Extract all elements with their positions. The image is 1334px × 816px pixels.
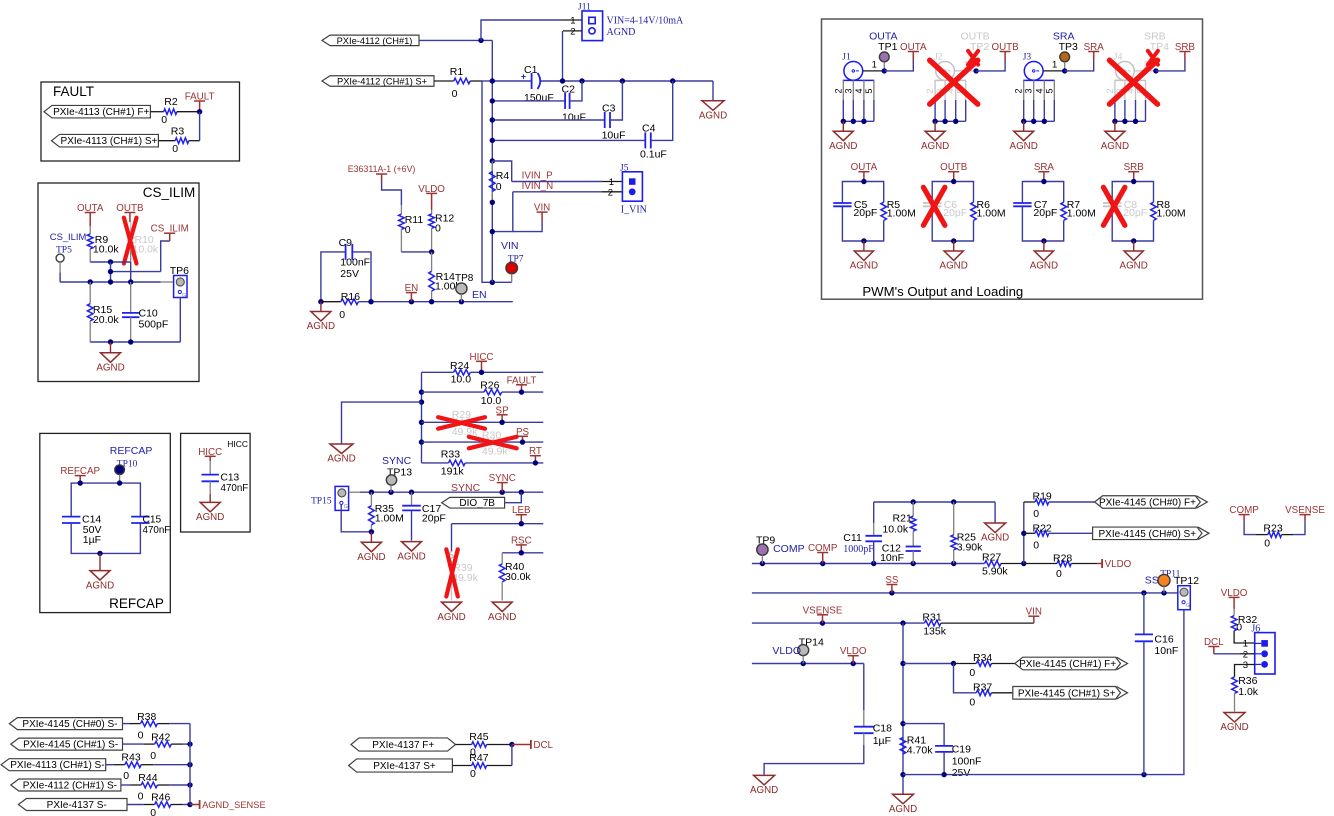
svg-text:3: 3 bbox=[1024, 88, 1034, 93]
svg-text:0: 0 bbox=[1033, 539, 1039, 551]
svg-text:0.1uF: 0.1uF bbox=[640, 149, 667, 161]
svg-text:1: 1 bbox=[609, 177, 614, 188]
power flag DCL bbox=[1213, 647, 1215, 654]
resistor R11 bbox=[400, 205, 402, 214]
ground AGND bbox=[402, 542, 422, 552]
svg-text:AGND_SENSE: AGND_SENSE bbox=[202, 800, 266, 810]
resistor R37 bbox=[976, 690, 991, 696]
svg-text:2: 2 bbox=[608, 188, 613, 199]
capacitor C12 bbox=[912, 531, 914, 546]
svg-text:J4: J4 bbox=[1114, 53, 1123, 63]
svg-text:0: 0 bbox=[435, 223, 441, 235]
svg-text:C1: C1 bbox=[524, 64, 538, 76]
wire COMP row bbox=[752, 563, 985, 565]
capacitor C5 bbox=[833, 202, 851, 204]
wire bbox=[1071, 563, 1097, 565]
PWM block outline bbox=[822, 19, 1203, 299]
svg-text:VSENSE: VSENSE bbox=[1285, 505, 1325, 516]
power flag OUTA bbox=[912, 52, 914, 62]
resistor R46 bbox=[155, 802, 171, 808]
wire TP15 bottom bbox=[341, 505, 371, 532]
svg-text:LEB: LEB bbox=[512, 505, 531, 516]
svg-text:0: 0 bbox=[123, 770, 129, 782]
capacitor C14 bbox=[62, 516, 80, 518]
wire bbox=[941, 622, 1034, 624]
wire bbox=[1001, 563, 1024, 565]
svg-text:REFCAP: REFCAP bbox=[60, 466, 100, 477]
svg-text:1.0k: 1.0k bbox=[1238, 686, 1259, 698]
svg-text:AGND: AGND bbox=[981, 533, 1009, 544]
svg-text:1: 1 bbox=[570, 16, 575, 27]
svg-text:0: 0 bbox=[1264, 537, 1270, 549]
svg-text:470nF: 470nF bbox=[221, 483, 249, 494]
svg-text:R2: R2 bbox=[164, 96, 178, 108]
svg-text:0: 0 bbox=[452, 88, 458, 100]
svg-text:1.00M: 1.00M bbox=[977, 208, 1006, 220]
svg-text:135k: 135k bbox=[923, 626, 947, 638]
wire bbox=[382, 182, 402, 205]
connector PXIe-4137 S+ bbox=[349, 759, 453, 772]
wire bbox=[171, 743, 183, 745]
wire loop bbox=[71, 483, 140, 516]
svg-text:SYNC: SYNC bbox=[382, 455, 412, 467]
wire bottom row bbox=[903, 774, 1144, 776]
svg-text:10.0k: 10.0k bbox=[133, 244, 159, 256]
wire bbox=[512, 744, 531, 746]
svg-text:PXIe-4112 (CH#1): PXIe-4112 (CH#1) bbox=[337, 36, 413, 46]
svg-text:EN: EN bbox=[472, 289, 487, 301]
resistor R42 bbox=[155, 741, 172, 747]
wire S- bus bbox=[189, 724, 191, 805]
wire row PS bbox=[422, 441, 544, 443]
wire bbox=[1024, 532, 1035, 534]
ground AGND bbox=[1224, 713, 1245, 723]
resistor R28 bbox=[1024, 563, 1057, 565]
svg-text:DCL: DCL bbox=[533, 740, 553, 751]
resistor R5 bbox=[881, 202, 887, 220]
no-fit cross J2 bbox=[930, 60, 978, 104]
wire EN row bbox=[321, 301, 341, 303]
power flag SRB bbox=[1184, 52, 1186, 62]
wire bbox=[487, 765, 512, 767]
junction bbox=[973, 68, 978, 73]
wire bbox=[470, 80, 482, 82]
svg-text:R43: R43 bbox=[121, 752, 140, 764]
wire TP12 stem bbox=[1144, 610, 1184, 775]
wire VSENSE row bbox=[752, 622, 925, 624]
wire bbox=[157, 784, 169, 786]
junction bbox=[1153, 68, 1158, 73]
ground AGND bbox=[754, 775, 775, 785]
svg-text:C18: C18 bbox=[873, 723, 892, 735]
power flag COMP (R23) bbox=[1243, 515, 1245, 522]
wire bbox=[199, 112, 201, 141]
power flag OUTB bbox=[129, 213, 131, 223]
svg-text:TP15: TP15 bbox=[311, 497, 332, 507]
wire IVIN_P bbox=[512, 181, 602, 183]
svg-text:R47: R47 bbox=[469, 752, 488, 764]
wire left bus bbox=[421, 372, 423, 463]
resistor R8 bbox=[1151, 202, 1157, 220]
svg-text:AGND: AGND bbox=[750, 785, 778, 796]
wire bbox=[431, 252, 433, 271]
svg-text:PXIe-4145 (CH#1) F+: PXIe-4145 (CH#1) F+ bbox=[1019, 659, 1116, 670]
connector PXIe-4145 (CH#1) S+ bbox=[1013, 687, 1121, 700]
svg-text:FAULT: FAULT bbox=[507, 375, 537, 386]
wire loop bbox=[932, 182, 973, 204]
connector PXIe-4113 (CH#1) S+ bbox=[52, 134, 159, 147]
svg-text:R44: R44 bbox=[138, 772, 157, 784]
resistor R7 bbox=[1061, 202, 1067, 220]
capacitor C16 bbox=[1143, 593, 1145, 635]
resistor R38 bbox=[141, 721, 158, 727]
wire LEB row bbox=[452, 523, 544, 525]
capacitor C1 (polarized) bbox=[531, 73, 533, 89]
svg-text:R31: R31 bbox=[922, 612, 941, 624]
REFCAP block outline bbox=[40, 433, 171, 612]
svg-text:J2: J2 bbox=[934, 53, 943, 63]
ground AGND bbox=[712, 81, 714, 101]
wire row HICC bbox=[422, 371, 454, 373]
wire to flag bbox=[1156, 61, 1185, 71]
svg-text:OUTA: OUTA bbox=[851, 162, 878, 173]
svg-text:IVIN_N: IVIN_N bbox=[522, 181, 554, 192]
wire to flag bbox=[976, 61, 1005, 71]
svg-text:VLDO: VLDO bbox=[1105, 559, 1132, 570]
svg-text:VIN=4-14V/10mA: VIN=4-14V/10mA bbox=[607, 16, 685, 27]
power flag SRA bbox=[1093, 52, 1095, 62]
wire bbox=[1024, 501, 1035, 503]
svg-text:4: 4 bbox=[1034, 88, 1044, 93]
capacitor C7 bbox=[1013, 202, 1031, 204]
connector PXIe-4145 (CH#1) F+ bbox=[1015, 657, 1121, 670]
svg-text:2: 2 bbox=[833, 88, 843, 93]
svg-text:AGND: AGND bbox=[488, 612, 516, 623]
capacitor C10 bbox=[130, 282, 132, 313]
test point TP1 bbox=[879, 52, 889, 62]
svg-text:0: 0 bbox=[1056, 568, 1062, 580]
wire R37 row bbox=[954, 664, 977, 693]
svg-text:PXIe-4137 F+: PXIe-4137 F+ bbox=[372, 740, 434, 751]
svg-text:500pF: 500pF bbox=[139, 318, 169, 330]
pin 4 stem bbox=[1043, 80, 1045, 100]
svg-text:AGND: AGND bbox=[921, 141, 949, 152]
power flag LEB bbox=[520, 515, 522, 524]
svg-text:PXIe-4145 (CH#0) F+: PXIe-4145 (CH#0) F+ bbox=[1099, 498, 1196, 509]
power flag VIN bbox=[1033, 616, 1035, 623]
svg-text:AGND: AGND bbox=[1030, 261, 1058, 272]
wire VIN bus bbox=[491, 40, 493, 282]
wire TP6 stem bbox=[179, 298, 181, 342]
capacitor C11 bbox=[873, 502, 875, 523]
wire IVIN_N bbox=[513, 191, 602, 193]
wire bbox=[157, 723, 169, 725]
svg-text:10.0k: 10.0k bbox=[93, 244, 119, 256]
svg-text:2: 2 bbox=[570, 27, 575, 38]
svg-text:FAULT: FAULT bbox=[185, 92, 215, 103]
resistor R4 bbox=[490, 158, 495, 163]
svg-text:AGND: AGND bbox=[1010, 141, 1038, 152]
svg-text:COMP: COMP bbox=[773, 543, 805, 555]
resistor R16 bbox=[341, 299, 359, 305]
svg-text:0: 0 bbox=[150, 750, 156, 762]
junction bbox=[509, 742, 514, 747]
wire bbox=[150, 111, 163, 113]
wire to TP6 bbox=[161, 281, 174, 283]
wire row SP bbox=[422, 421, 544, 423]
svg-text:10uF: 10uF bbox=[602, 129, 626, 141]
svg-text:OUTB: OUTB bbox=[940, 162, 968, 173]
junction bbox=[478, 38, 483, 43]
svg-text:SYNC: SYNC bbox=[451, 482, 481, 494]
connector PXIe-4112 (CH#1) bbox=[322, 35, 419, 46]
resistor R26 bbox=[484, 389, 502, 395]
wire pins to gnd bbox=[935, 120, 966, 122]
svg-text:C11: C11 bbox=[843, 532, 862, 544]
wire bbox=[1244, 521, 1256, 534]
ground AGND bbox=[442, 602, 462, 612]
svg-text:R34: R34 bbox=[973, 652, 992, 664]
svg-text:PXIe-4145 (CH#0) S-: PXIe-4145 (CH#0) S- bbox=[22, 719, 117, 730]
svg-text:EN: EN bbox=[405, 283, 419, 294]
svg-text:COMP: COMP bbox=[1229, 505, 1259, 516]
svg-text:R33: R33 bbox=[441, 449, 460, 461]
svg-text:R42: R42 bbox=[151, 732, 170, 744]
power flag VSENSE bbox=[822, 615, 824, 623]
pin 4 stem bbox=[863, 80, 865, 100]
wire pin3 bbox=[1235, 665, 1255, 677]
svg-text:R23: R23 bbox=[1263, 522, 1282, 534]
pin 2 stem bbox=[934, 80, 936, 100]
resistor R25 bbox=[953, 502, 955, 535]
power flag AGND_SENSE bbox=[199, 800, 201, 809]
resistor R2 bbox=[164, 109, 177, 115]
svg-text:100nF: 100nF bbox=[340, 257, 370, 269]
power flag VSENSE bbox=[1304, 515, 1306, 522]
ground AGND bbox=[1133, 241, 1135, 251]
resistor R31 bbox=[924, 620, 941, 626]
resistor R40 bbox=[501, 553, 503, 564]
svg-text:25V: 25V bbox=[952, 767, 971, 779]
wire bbox=[177, 111, 200, 113]
capacitor C17 bbox=[411, 492, 413, 506]
wire main vertical bbox=[902, 623, 904, 794]
svg-text:RT: RT bbox=[529, 446, 542, 457]
resistor R44 bbox=[141, 782, 157, 788]
svg-text:2: 2 bbox=[1014, 88, 1024, 93]
svg-text:1.00M: 1.00M bbox=[1067, 208, 1096, 220]
wire loop bbox=[1022, 182, 1063, 204]
pin 3 stem bbox=[1033, 80, 1035, 100]
svg-text:C16: C16 bbox=[1154, 634, 1173, 646]
power flag PS bbox=[522, 436, 524, 442]
power flag HICC bbox=[209, 456, 211, 461]
wire loop bbox=[842, 182, 883, 204]
svg-text:HICC: HICC bbox=[227, 439, 248, 449]
resistor R45 bbox=[472, 742, 487, 748]
ground AGND bbox=[209, 481, 211, 494]
svg-text:3: 3 bbox=[1243, 660, 1248, 671]
svg-text:PS: PS bbox=[516, 427, 530, 438]
connector PXIe-4145 (CH#0) F+ bbox=[1095, 496, 1201, 509]
resistor R21 bbox=[912, 502, 914, 516]
svg-text:R16: R16 bbox=[341, 291, 360, 303]
svg-text:2: 2 bbox=[1105, 88, 1115, 93]
no-fit cross C6 bbox=[923, 187, 945, 225]
ground AGND bbox=[99, 553, 101, 570]
wire pins to gnd bbox=[1024, 120, 1055, 122]
junction bbox=[520, 439, 525, 444]
power flag OUTA bbox=[863, 172, 865, 182]
wire main row bbox=[60, 281, 161, 283]
svg-text:COMP: COMP bbox=[808, 543, 838, 554]
wire bbox=[452, 765, 471, 767]
connector PXIe-4145 (CH#0) S+ bbox=[1093, 527, 1202, 540]
resistor R39 (not fitted) bbox=[449, 552, 455, 572]
no-fit cross R29 bbox=[438, 417, 485, 429]
no-fit cross SRB flag bbox=[1148, 51, 1158, 65]
power flag RSC bbox=[520, 545, 522, 553]
capacitor C13 bbox=[209, 461, 211, 475]
no-fit cross C8 bbox=[1103, 187, 1125, 225]
power flag RT bbox=[534, 456, 536, 463]
power flag COMP bbox=[822, 553, 824, 564]
resistor R34 bbox=[976, 661, 991, 667]
wire bbox=[89, 226, 91, 234]
FAULT block outline bbox=[41, 82, 240, 161]
no-fit cross R30 bbox=[469, 437, 517, 449]
svg-text:1: 1 bbox=[872, 60, 877, 71]
resistor R23 bbox=[1268, 532, 1282, 538]
svg-text:20pF: 20pF bbox=[422, 512, 446, 524]
power flag VLDO (J6) bbox=[1233, 597, 1235, 609]
svg-text:AGND: AGND bbox=[607, 27, 636, 38]
no-fit cross OUTB flag bbox=[968, 51, 978, 65]
svg-text:SYNC: SYNC bbox=[489, 473, 516, 484]
svg-text:0: 0 bbox=[150, 807, 156, 816]
connector PXIe-4112 (CH#1) S- bbox=[11, 779, 121, 791]
junction bbox=[490, 280, 495, 285]
wire bbox=[123, 723, 130, 725]
junction bbox=[499, 420, 504, 425]
svg-text:SS: SS bbox=[885, 575, 899, 586]
svg-text:10nF: 10nF bbox=[1154, 645, 1178, 657]
resistor R36 bbox=[1232, 677, 1238, 694]
power flag VLDO bbox=[431, 193, 433, 210]
svg-text:1.00M: 1.00M bbox=[887, 208, 916, 220]
svg-text:REFCAP: REFCAP bbox=[110, 445, 153, 457]
svg-text:AGND: AGND bbox=[437, 612, 465, 623]
svg-text:HICC: HICC bbox=[470, 352, 494, 363]
wire J11 pin2 bbox=[563, 30, 582, 32]
ground AGND bbox=[370, 532, 372, 543]
svg-text:TP8: TP8 bbox=[455, 273, 474, 284]
junction bbox=[187, 802, 192, 807]
wire to flag bbox=[1065, 61, 1094, 71]
capacitor C18 bbox=[863, 664, 865, 711]
junction bbox=[429, 249, 434, 254]
svg-text:AGND: AGND bbox=[86, 580, 114, 591]
ground AGND bbox=[320, 302, 322, 312]
junction bbox=[519, 389, 524, 394]
wire to J11 pin1 bbox=[481, 20, 563, 40]
svg-text:10nF: 10nF bbox=[880, 552, 904, 564]
pin 3 stem bbox=[852, 80, 854, 100]
svg-text:2: 2 bbox=[925, 88, 935, 93]
wire bbox=[111, 271, 161, 273]
wire bbox=[189, 140, 200, 142]
no-fit cross J4 bbox=[1110, 60, 1158, 104]
svg-text:DCL: DCL bbox=[1204, 637, 1224, 648]
connector PXIe-4137 S- bbox=[18, 799, 127, 811]
power flag E36311A-1 (+6V) bbox=[381, 174, 383, 182]
svg-text:AGND: AGND bbox=[829, 141, 857, 152]
power flag SRB bbox=[1133, 172, 1135, 182]
svg-text:E36311A-1 (+6V): E36311A-1 (+6V) bbox=[348, 164, 416, 174]
svg-text:AGND: AGND bbox=[889, 804, 917, 815]
svg-text:R45: R45 bbox=[469, 731, 488, 743]
wire top rail bbox=[874, 501, 995, 503]
svg-text:20pF: 20pF bbox=[853, 207, 877, 219]
svg-text:VIN: VIN bbox=[501, 240, 519, 252]
svg-text:PXIe-4145 (CH#1) S+: PXIe-4145 (CH#1) S+ bbox=[1018, 688, 1116, 699]
svg-text:R3: R3 bbox=[171, 126, 185, 138]
capacitor C4 bbox=[492, 139, 645, 141]
resistor R27 bbox=[985, 561, 1001, 567]
no-fit cross R39 bbox=[446, 549, 458, 596]
svg-text:FAULT: FAULT bbox=[53, 84, 94, 99]
svg-text:R27: R27 bbox=[982, 552, 1001, 564]
svg-text:0: 0 bbox=[161, 114, 167, 126]
svg-text:3.90k: 3.90k bbox=[957, 542, 983, 554]
power flag OUTB bbox=[1004, 52, 1006, 62]
ground AGND bbox=[953, 241, 955, 251]
svg-text:VIN: VIN bbox=[1026, 607, 1042, 618]
svg-text:SRB: SRB bbox=[1124, 162, 1145, 173]
svg-text:20pF: 20pF bbox=[943, 207, 967, 219]
svg-text:C13: C13 bbox=[221, 473, 240, 484]
svg-text:C4: C4 bbox=[642, 123, 656, 135]
resistor R1 bbox=[454, 78, 471, 84]
resistor R12 bbox=[431, 210, 433, 214]
svg-text:470nF: 470nF bbox=[143, 525, 171, 536]
resistor R9 bbox=[87, 234, 93, 249]
no-fit cross R10 bbox=[124, 218, 137, 264]
power flag FAULT bbox=[199, 101, 201, 112]
pin 1 lead bbox=[955, 70, 977, 72]
svg-text:VLDO: VLDO bbox=[772, 645, 801, 657]
svg-text:10.0k: 10.0k bbox=[882, 523, 908, 535]
ground AGND bbox=[1023, 121, 1025, 131]
wire bbox=[349, 491, 360, 493]
ground AGND bbox=[893, 794, 914, 804]
connector DIO_7B bbox=[442, 497, 505, 508]
capacitor C3 bbox=[492, 119, 604, 121]
resistor R30 (not fitted) bbox=[481, 439, 498, 445]
svg-text:PXIe-4113 (CH#1) F+: PXIe-4113 (CH#1) F+ bbox=[53, 107, 149, 118]
svg-text:VIN: VIN bbox=[534, 203, 550, 214]
svg-text:SP: SP bbox=[496, 405, 510, 416]
wire to AGND bbox=[342, 402, 422, 444]
capacitor C19 bbox=[935, 745, 953, 747]
svg-text:0: 0 bbox=[470, 768, 476, 780]
connector PXIe-4145 (CH#1) S- bbox=[11, 738, 123, 750]
pin 5 stem bbox=[1053, 80, 1055, 100]
svg-text:1.00M: 1.00M bbox=[375, 513, 404, 525]
resistor R29 (not fitted) bbox=[450, 420, 467, 426]
power flag REFCAP bbox=[79, 476, 81, 484]
pin 1 lead bbox=[1043, 70, 1065, 72]
